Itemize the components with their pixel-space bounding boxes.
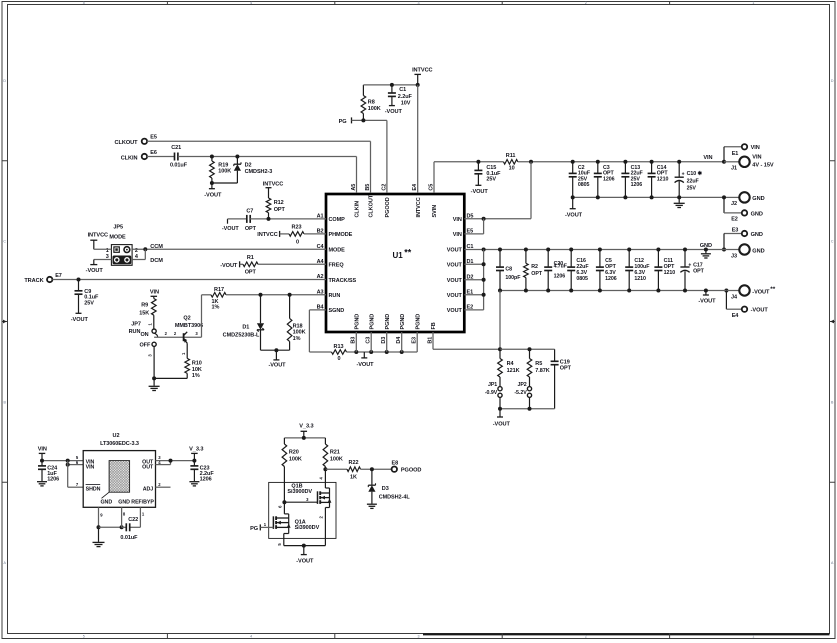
svg-text:CMDSH2-3: CMDSH2-3 <box>245 169 273 175</box>
svg-text:PGND: PGND <box>355 314 361 330</box>
jumper JP7 RUN <box>129 315 158 378</box>
svg-text:25V: 25V <box>486 177 496 183</box>
transistor Q1B Si3900DV <box>287 469 331 518</box>
svg-text:J2: J2 <box>731 201 737 207</box>
svg-text:25V: 25V <box>84 301 94 307</box>
svg-text:C10 ✱: C10 ✱ <box>687 171 703 177</box>
wire VOUT top rail <box>464 248 724 252</box>
svg-text:J1: J1 <box>731 165 737 171</box>
wire Q1 source rail to -VOUT <box>284 508 326 548</box>
svg-text:Si3900DV: Si3900DV <box>295 525 320 531</box>
svg-text:1%: 1% <box>293 336 301 342</box>
svg-text:VOUT: VOUT <box>447 293 463 299</box>
svg-text:INTVCC: INTVCC <box>257 232 277 238</box>
svg-text:R23: R23 <box>292 225 302 231</box>
svg-text:INTVCC: INTVCC <box>263 181 283 187</box>
svg-text:FB: FB <box>431 322 437 329</box>
svg-text:-VOUT: -VOUT <box>565 213 583 219</box>
capacitor C2 <box>569 160 591 198</box>
capacitor C21 0.01uF <box>170 145 188 168</box>
-VOUT flag below C1 <box>385 106 403 115</box>
svg-text:OPT: OPT <box>560 366 572 372</box>
resistor R18 100K 1% <box>287 295 305 350</box>
connector J3 GND <box>722 234 765 260</box>
svg-text:R21: R21 <box>330 450 340 456</box>
terminal E5 CLKOUT <box>115 135 157 146</box>
svg-text:J4: J4 <box>731 294 738 300</box>
-VOUT flag below Q1 <box>296 546 314 565</box>
svg-text:INTVCC: INTVCC <box>416 197 422 217</box>
svg-text:R22: R22 <box>349 460 359 466</box>
svg-text:4V - 15V: 4V - 15V <box>752 163 774 169</box>
wire U2 VIN pin6 and SHDN <box>66 461 84 488</box>
svg-text:1210: 1210 <box>634 276 646 282</box>
-VOUT flag below C2 <box>565 197 583 218</box>
svg-text:OUT: OUT <box>142 464 154 470</box>
svg-text:U1: U1 <box>393 251 404 260</box>
wire VIN to U2 <box>40 459 83 463</box>
node -VOUT at R1 <box>220 261 239 269</box>
svg-text:C17: C17 <box>693 262 703 268</box>
svg-text:1: 1 <box>752 1 754 5</box>
transistor pair box Q1 <box>269 482 336 538</box>
wire JP7 to Q2 base <box>154 331 201 337</box>
capacitor C5 <box>596 250 617 291</box>
svg-text:OPT: OPT <box>245 270 257 276</box>
svg-text:VIN: VIN <box>703 155 712 161</box>
svg-text:1206: 1206 <box>200 477 212 483</box>
resistor R10 10K 1% <box>185 343 202 379</box>
wire R19 D2 junction <box>210 181 238 185</box>
resistor R9 15K <box>139 299 156 317</box>
svg-text:E6: E6 <box>150 150 157 156</box>
svg-text:1%: 1% <box>212 305 220 311</box>
capacitor C20 1206 <box>544 250 567 291</box>
wire E6 to C21 <box>147 156 175 158</box>
wire VIN branch down to U1 D5 <box>464 162 531 221</box>
resistor R23 0 <box>280 225 326 246</box>
svg-text:TRACK/SS: TRACK/SS <box>329 278 357 284</box>
node V_3.3 at C23 <box>189 446 203 460</box>
svg-text:OPT: OPT <box>693 269 705 275</box>
svg-text:R13: R13 <box>334 344 344 350</box>
svg-text:U2: U2 <box>113 433 120 439</box>
svg-text:LT3060EDC-3.3: LT3060EDC-3.3 <box>100 441 139 447</box>
svg-text:VOUT: VOUT <box>447 278 463 284</box>
svg-text:25V: 25V <box>687 186 697 192</box>
resistor R22 1K <box>347 460 361 480</box>
-VOUT flag at C7 <box>222 219 240 232</box>
svg-text:-VOUT: -VOUT <box>356 362 374 368</box>
svg-text:100K: 100K <box>218 169 231 175</box>
capacitor C13 <box>621 160 643 198</box>
terminal E1 VIN <box>724 144 760 157</box>
svg-text:CLKOUT: CLKOUT <box>115 140 139 146</box>
svg-text:100pF: 100pF <box>505 275 521 281</box>
svg-text:R8: R8 <box>368 100 375 106</box>
svg-text:-VOUT: -VOUT <box>204 192 222 198</box>
svg-text:VOUT: VOUT <box>447 308 463 314</box>
svg-text:OFF: OFF <box>139 342 151 348</box>
svg-text:GND: GND <box>752 248 764 254</box>
svg-text:JP5: JP5 <box>113 225 123 231</box>
wire FB bottom rail <box>498 407 555 411</box>
svg-text:2: 2 <box>585 634 587 638</box>
wire FB node to R5 C19 <box>500 347 555 351</box>
svg-text:VOUT: VOUT <box>447 248 463 254</box>
resistor R21 100K <box>323 438 343 471</box>
svg-text:C8: C8 <box>505 266 512 272</box>
U1 label <box>393 248 412 261</box>
svg-text:1206: 1206 <box>631 182 643 188</box>
svg-text:1206: 1206 <box>605 276 617 282</box>
svg-text:JP7: JP7 <box>131 321 141 327</box>
-VOUT flag below output rail <box>698 291 716 305</box>
node V_3.3 above R20 R21 <box>299 423 313 438</box>
capacitor C16 <box>567 250 589 291</box>
svg-text:DCM: DCM <box>150 258 163 264</box>
svg-text:R11: R11 <box>506 153 516 159</box>
wire TRACK to U1 A2 <box>52 278 326 282</box>
svg-text:0.01uF: 0.01uF <box>120 535 138 541</box>
svg-text:100K: 100K <box>330 456 343 462</box>
diode D2 CMDSH2-3 <box>234 157 272 184</box>
svg-text:VIN: VIN <box>86 464 95 470</box>
svg-text:TRACK: TRACK <box>24 278 43 284</box>
svg-text:MODE: MODE <box>109 234 126 240</box>
node GND on VOUT rail <box>700 243 712 258</box>
svg-text:121K: 121K <box>507 368 520 374</box>
svg-text:-VOUT: -VOUT <box>86 268 104 274</box>
svg-text:+: + <box>688 263 691 269</box>
capacitor C3 <box>594 160 615 198</box>
ground below U2 pin 9 <box>93 527 105 546</box>
jumper JP2 -5.2V <box>514 382 531 409</box>
svg-text:CLKIN: CLKIN <box>355 201 361 218</box>
svg-text:E5: E5 <box>150 135 157 141</box>
wire U2 GND pin 9 <box>97 507 124 529</box>
resistor R8 100K <box>361 85 381 121</box>
resistor R13 0 <box>332 344 347 362</box>
svg-text:PGOOD: PGOOD <box>401 468 422 474</box>
svg-text:VIN: VIN <box>453 232 462 238</box>
capacitor C7 OPT <box>245 209 257 232</box>
svg-text:R17: R17 <box>214 287 224 293</box>
svg-text:22uF: 22uF <box>687 178 700 184</box>
svg-text:E3: E3 <box>732 228 739 234</box>
svg-text:VIN: VIN <box>453 217 462 223</box>
svg-text:INTVCC: INTVCC <box>412 67 432 73</box>
ground below C10 <box>674 197 685 207</box>
-VOUT flag below JP5 <box>86 265 104 274</box>
wire R11 to VIN connectors <box>518 160 724 164</box>
capacitor C11 <box>654 250 675 291</box>
capacitor C15 0.1uF 25V <box>474 162 501 186</box>
svg-text:-VOUT: -VOUT <box>752 289 770 295</box>
svg-text:PGOOD: PGOOD <box>385 197 391 217</box>
svg-text:C: C <box>3 240 6 244</box>
svg-text:5: 5 <box>83 1 85 5</box>
svg-text:GND: GND <box>751 211 763 217</box>
wire U1 E5 VIN bracket <box>464 219 483 234</box>
svg-text:R10: R10 <box>192 361 202 367</box>
wire R22 to E8 <box>361 467 392 471</box>
svg-text:-VOUT: -VOUT <box>268 363 286 369</box>
capacitor C1 2.2uF 10V <box>388 85 413 107</box>
svg-text:RUN: RUN <box>129 329 141 335</box>
resistor R12 OPT <box>266 198 285 219</box>
wire JP5 pin1 <box>94 248 112 250</box>
wire U1 B4 SGND to R13 <box>309 310 331 352</box>
terminal E8 PGOOD <box>391 461 421 474</box>
wire INTVCC to U1 E4 <box>417 85 419 193</box>
svg-text:PGND: PGND <box>369 314 375 330</box>
svg-text:1210: 1210 <box>657 176 669 182</box>
svg-text:-VOUT: -VOUT <box>751 308 769 314</box>
resistor R20 100K <box>282 438 302 502</box>
wire R21 to R22 <box>325 468 347 470</box>
svg-text:GND: GND <box>700 243 712 249</box>
op-module U1 (outline) <box>326 194 464 332</box>
wire C21 to U1 A5 <box>178 155 357 194</box>
wire V_3.3 rail <box>284 436 325 440</box>
capacitor C22 0.01uF <box>120 517 138 541</box>
svg-text:10: 10 <box>509 166 515 172</box>
svg-text:ON: ON <box>140 332 148 338</box>
svg-text:4: 4 <box>250 1 252 5</box>
svg-text:R18: R18 <box>293 324 303 330</box>
svg-text:-5.2V: -5.2V <box>514 390 527 396</box>
svg-text:D1: D1 <box>242 324 249 330</box>
capacitor C23 2.2uF 1206 <box>190 461 214 483</box>
svg-text:-0.9V: -0.9V <box>485 390 498 396</box>
resistor R17 1K 1% <box>202 287 327 311</box>
svg-text:D: D <box>831 79 834 83</box>
terminal E2 GND <box>724 210 763 222</box>
svg-text:R1: R1 <box>247 255 254 261</box>
svg-text:C19: C19 <box>560 359 570 365</box>
terminal E4 -VOUT <box>726 291 768 319</box>
svg-text:5: 5 <box>83 634 85 638</box>
svg-text:2.2uF: 2.2uF <box>398 94 413 100</box>
svg-text:0: 0 <box>296 239 299 245</box>
diode D3 CMDSH2-4L <box>368 469 410 504</box>
wire C8 column to FB node <box>499 291 501 350</box>
svg-text:VIN: VIN <box>752 155 761 161</box>
svg-text:**: ** <box>404 248 411 258</box>
wire R10 to ground rail <box>152 376 187 380</box>
svg-text:R19: R19 <box>218 162 228 168</box>
wire input cap bottom rail <box>571 195 724 199</box>
svg-text:R5: R5 <box>535 361 542 367</box>
svg-text:C22: C22 <box>128 517 138 523</box>
svg-text:JP1: JP1 <box>488 382 497 388</box>
svg-text:D3: D3 <box>382 486 389 492</box>
svg-text:15K: 15K <box>139 311 149 317</box>
wire JP5 pin3 to -VOUT <box>94 260 112 265</box>
wire JP5 pin2 CCM to U1 C4 MODE <box>132 244 326 251</box>
svg-text:CLKIN: CLKIN <box>121 155 138 161</box>
svg-text:1206: 1206 <box>554 274 566 280</box>
svg-text:VIN: VIN <box>751 145 760 151</box>
wire -VOUT to C7 <box>228 218 247 220</box>
svg-text:INTVCC: INTVCC <box>88 232 108 238</box>
svg-text:100K: 100K <box>368 106 381 112</box>
svg-text:R20: R20 <box>289 450 299 456</box>
wire output cap bottom rail <box>498 289 726 293</box>
terminal E7 TRACK <box>24 273 61 284</box>
ground below C24 <box>37 482 47 486</box>
wire U2 OUT to V_3.3 <box>156 459 197 465</box>
ground below JP7 <box>149 378 160 390</box>
-VOUT flag below D1 R18 <box>268 350 286 369</box>
resistor R1 OPT <box>240 255 326 275</box>
svg-text:PG: PG <box>339 119 347 125</box>
svg-text:V_3.3: V_3.3 <box>299 423 313 429</box>
svg-text:7.87K: 7.87K <box>535 368 549 374</box>
svg-text:MODE: MODE <box>329 248 346 254</box>
svg-text:VOUT: VOUT <box>447 263 463 269</box>
resistor R19 100K <box>210 157 232 184</box>
resistor R11 10 <box>504 153 518 171</box>
svg-text:GND: GND <box>101 500 113 506</box>
resistor R5 7.87K <box>527 349 550 387</box>
svg-text:CCM: CCM <box>150 244 163 250</box>
diode D1 CMDZ5230B-L zener <box>223 295 264 350</box>
transistor Q1A Si3900DV <box>273 502 319 545</box>
svg-text:CMDZ5230B-L: CMDZ5230B-L <box>223 333 260 339</box>
svg-text:100K: 100K <box>293 330 306 336</box>
svg-text:0: 0 <box>338 356 341 362</box>
svg-text:COMP: COMP <box>329 217 346 223</box>
svg-text:-VOUT: -VOUT <box>296 559 314 565</box>
U1 pin names <box>317 183 474 344</box>
svg-text:PGND: PGND <box>385 314 391 330</box>
svg-text:+: + <box>682 172 685 178</box>
svg-text:SVIN: SVIN <box>432 205 438 218</box>
capacitor C12 <box>625 250 650 291</box>
ground below D3 <box>367 504 377 508</box>
capacitor C24 1uF 1206 <box>38 461 59 483</box>
svg-text:R2: R2 <box>531 264 538 270</box>
svg-text:1206: 1206 <box>47 477 59 483</box>
svg-text:V_3.3: V_3.3 <box>189 446 203 452</box>
node INTVCC above JP5 <box>88 232 108 249</box>
svg-text:OPT: OPT <box>531 271 543 277</box>
node VIN above C24 <box>38 446 47 460</box>
node INTVCC above U1 <box>412 67 432 85</box>
wire U1 VOUT pins bracket <box>464 250 485 310</box>
svg-text:PG: PG <box>250 526 258 532</box>
capacitor C19 OPT <box>551 349 572 408</box>
svg-text:R9: R9 <box>141 302 148 308</box>
svg-text:OPT: OPT <box>274 207 286 213</box>
connector J2 GND <box>722 192 765 213</box>
svg-text:E8: E8 <box>391 461 398 467</box>
capacitor C10 22uF 25V polarized <box>675 160 703 198</box>
terminal E3 GND <box>724 228 763 238</box>
wire R8 top to INTVCC column <box>363 83 419 87</box>
svg-text:1: 1 <box>752 634 754 638</box>
capacitor C9 0.1uF 25V <box>75 280 100 314</box>
svg-text:GND: GND <box>751 232 763 238</box>
svg-text:**: ** <box>770 286 775 293</box>
node INTVCC above R12 <box>263 181 283 198</box>
ground below C23 <box>189 482 199 486</box>
-VOUT flag below R19 <box>204 183 222 198</box>
wire PG to U1 C2 PGOOD <box>352 118 387 193</box>
svg-text:E7: E7 <box>55 273 62 279</box>
node VIN above R9 <box>150 290 159 299</box>
svg-text:VIN: VIN <box>150 290 159 296</box>
svg-text:2: 2 <box>585 1 587 5</box>
svg-text:0.01uF: 0.01uF <box>170 163 188 169</box>
wire CLKOUT E5 to U1 B5 <box>147 141 371 193</box>
svg-text:D: D <box>3 79 6 83</box>
regulator U2 LT3060EDC-3.3 <box>83 433 155 507</box>
svg-text:1210: 1210 <box>664 270 676 276</box>
svg-text:100K: 100K <box>289 456 302 462</box>
wire U2 pin 8 pin 1 <box>122 507 141 527</box>
svg-text:PGND: PGND <box>415 314 421 330</box>
svg-text:E2: E2 <box>731 217 738 223</box>
svg-text:-VOUT: -VOUT <box>471 189 489 195</box>
svg-text:CMDSH2-4L: CMDSH2-4L <box>379 495 411 501</box>
svg-text:10K: 10K <box>192 367 202 373</box>
svg-text:1%: 1% <box>192 373 200 379</box>
-VOUT flag below C9 <box>71 313 89 323</box>
svg-text:J3: J3 <box>731 253 737 259</box>
svg-text:MMBT3906: MMBT3906 <box>175 323 203 329</box>
svg-text:C7: C7 <box>246 209 253 215</box>
wire PGND pin stubs <box>356 332 417 352</box>
svg-text:C1: C1 <box>399 87 406 93</box>
svg-text:GND REF/BYP: GND REF/BYP <box>118 500 154 506</box>
resistor R2 OPT <box>524 250 543 291</box>
svg-text:ADJ: ADJ <box>143 486 154 492</box>
svg-text:0805: 0805 <box>578 182 590 188</box>
svg-text:3: 3 <box>418 1 420 5</box>
jumper JP5 MODE block <box>106 225 139 266</box>
svg-text:-VOUT: -VOUT <box>222 226 240 232</box>
svg-text:3: 3 <box>418 634 420 638</box>
node INTVCC at R23 <box>257 231 279 238</box>
svg-text:SGND: SGND <box>329 308 345 314</box>
svg-text:-VOUT: -VOUT <box>385 109 403 115</box>
svg-text:OPT: OPT <box>245 226 257 232</box>
wire D1 R18 bottom rail <box>261 348 290 352</box>
wire C7 to U1 A1 COMP <box>250 217 326 221</box>
svg-text:E4: E4 <box>732 313 740 319</box>
wire U1 C5 SVIN to VIN rail <box>434 160 504 193</box>
connector J4 -VOUT <box>724 285 775 300</box>
svg-text:PGND: PGND <box>400 314 406 330</box>
-VOUT flag below PGND rail <box>356 352 374 368</box>
capacitor C14 <box>648 160 669 198</box>
svg-text:-VOUT: -VOUT <box>71 317 89 323</box>
svg-text:0805: 0805 <box>576 276 588 282</box>
svg-text:1K: 1K <box>350 474 357 480</box>
wire JP5 pin4 DCM <box>132 249 163 264</box>
svg-text:4.7uF: 4.7uF <box>554 264 567 270</box>
svg-text:4: 4 <box>250 634 252 638</box>
-VOUT flag below C15 <box>471 185 489 195</box>
jumper JP1 -0.9V <box>485 382 502 409</box>
svg-text:SHDN: SHDN <box>86 486 101 492</box>
-VOUT flag below FB divider <box>493 409 511 428</box>
svg-text:Q2: Q2 <box>183 316 190 322</box>
node PG <box>339 117 352 124</box>
